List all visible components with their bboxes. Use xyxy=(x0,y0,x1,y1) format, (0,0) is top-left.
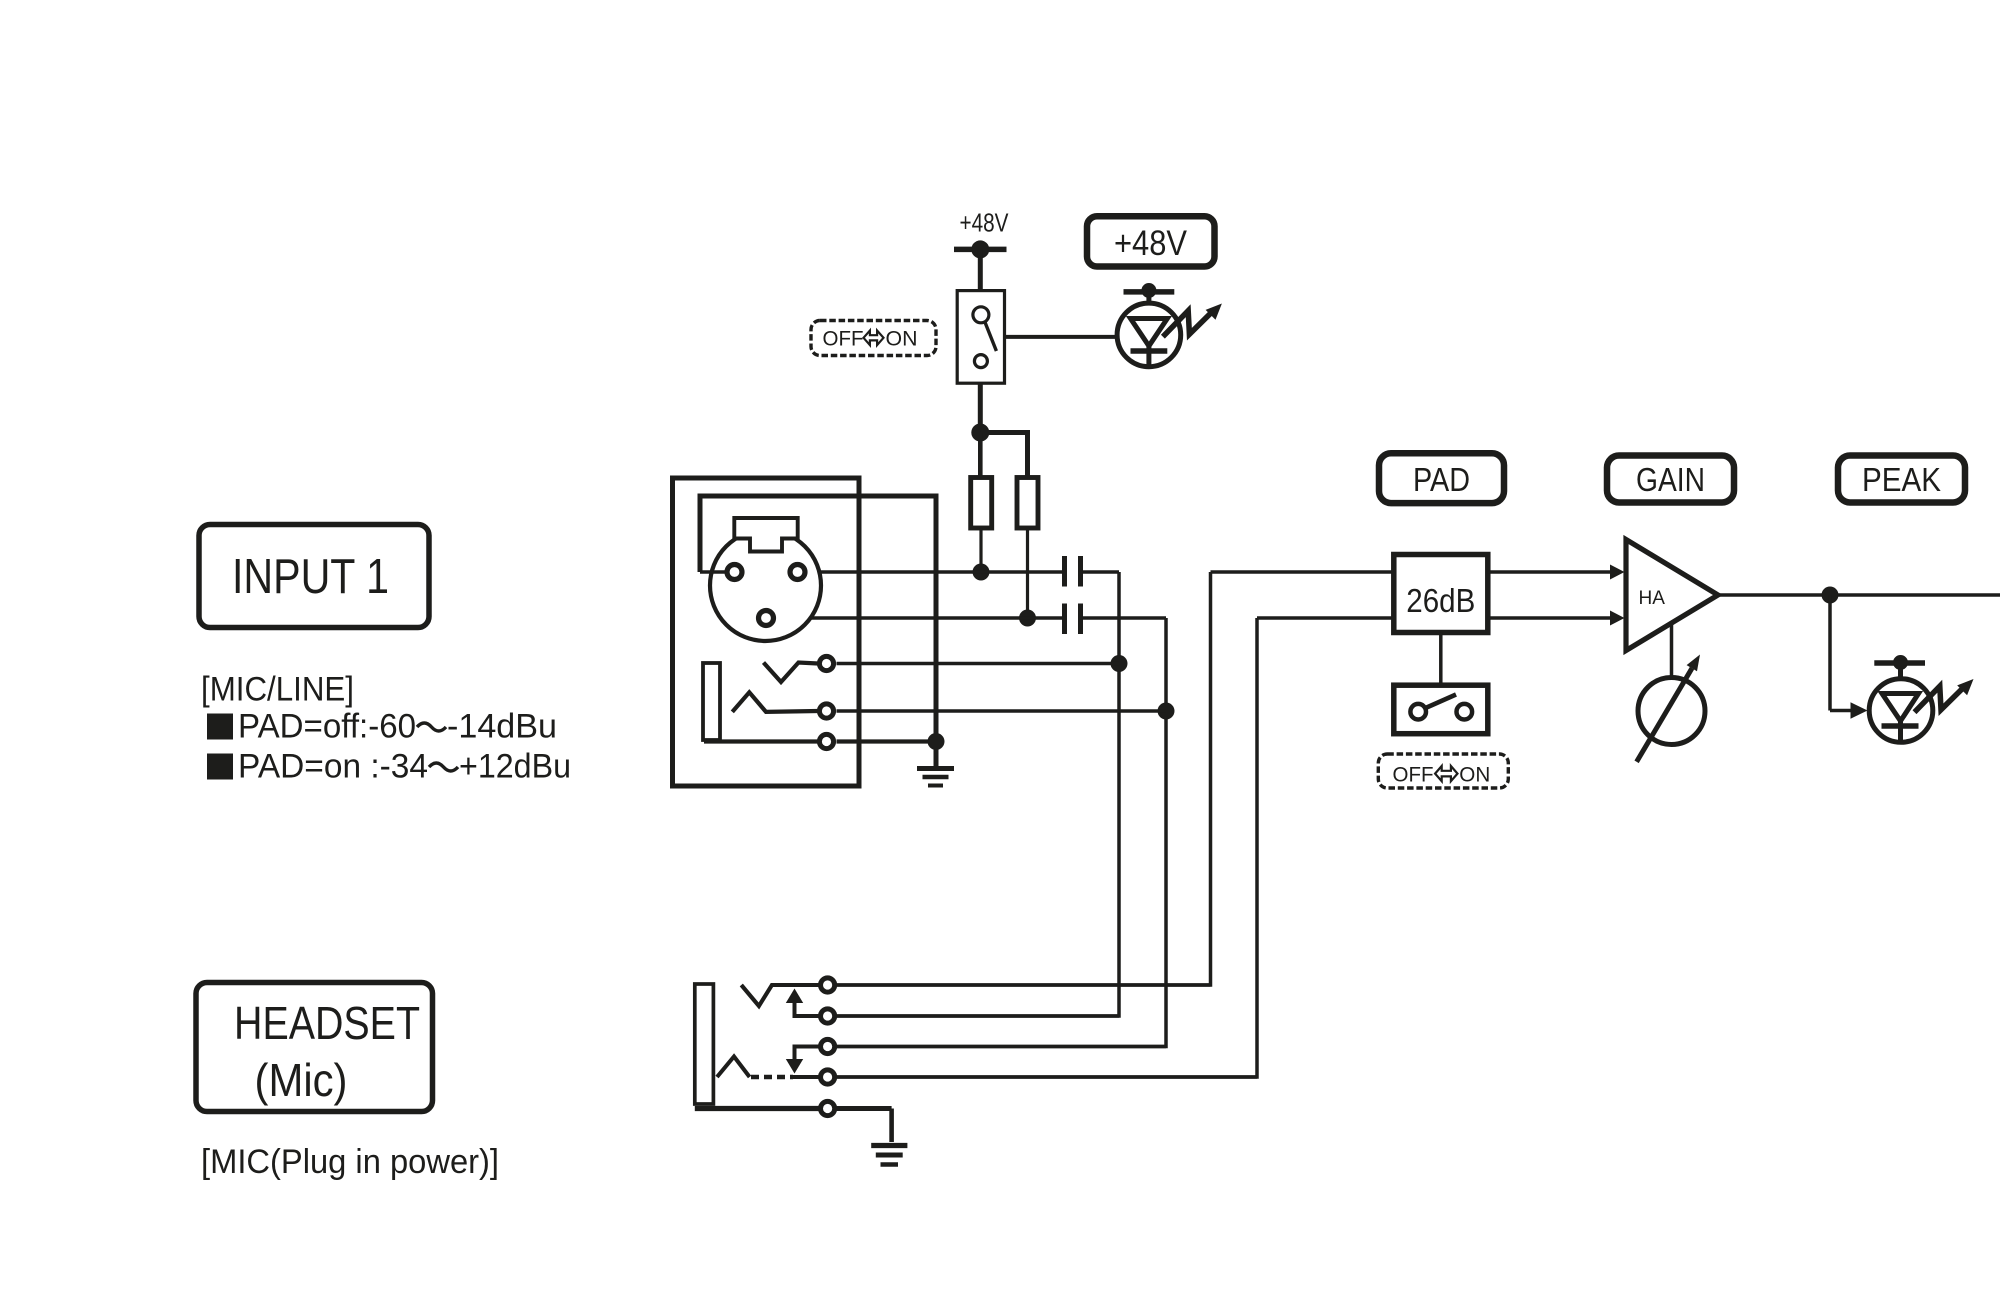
svg-text:PAD=off:-60: PAD=off:-60 xyxy=(238,708,416,746)
svg-text:OFF: OFF xyxy=(823,328,864,351)
svg-text:INPUT 1: INPUT 1 xyxy=(232,550,389,604)
svg-text:PAD: PAD xyxy=(1413,461,1470,498)
svg-text:-14dBu: -14dBu xyxy=(447,708,557,746)
svg-text:[MIC/LINE]: [MIC/LINE] xyxy=(201,671,354,709)
svg-text:+12dBu: +12dBu xyxy=(459,748,571,786)
svg-text:ON: ON xyxy=(1459,764,1490,787)
svg-text:GAIN: GAIN xyxy=(1636,461,1705,498)
svg-text:PEAK: PEAK xyxy=(1862,461,1941,498)
svg-text:HEADSET: HEADSET xyxy=(234,997,420,1049)
svg-text:26dB: 26dB xyxy=(1406,582,1475,619)
svg-text:+48V: +48V xyxy=(1114,224,1188,263)
svg-text:OFF: OFF xyxy=(1393,764,1434,787)
svg-text:HA: HA xyxy=(1639,588,1666,609)
svg-text:ON: ON xyxy=(886,328,918,351)
svg-text:PAD=on :-34: PAD=on :-34 xyxy=(238,748,428,786)
svg-text:(Mic): (Mic) xyxy=(255,1054,348,1106)
svg-text:[MIC(Plug in power)]: [MIC(Plug in power)] xyxy=(201,1143,499,1181)
svg-text:+48V: +48V xyxy=(960,208,1010,238)
